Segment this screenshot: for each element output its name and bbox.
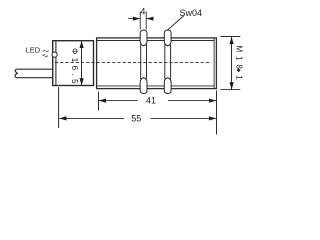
dim 55 extension line left bbox=[58, 87, 60, 128]
dim phi16.5 line bbox=[81, 41, 83, 85]
svg-text:Φ16.5: Φ16.5 bbox=[70, 48, 79, 87]
barrel (threaded body M18) bbox=[97, 38, 217, 89]
LED indicator circle bbox=[52, 52, 57, 57]
LED rays bbox=[42, 50, 48, 57]
svg-text:1: 1 bbox=[234, 75, 243, 80]
dim 4 arrows bbox=[128, 18, 153, 20]
leader line Sw04 bbox=[167, 16, 184, 31]
dim M18*1 ticks bbox=[221, 37, 241, 90]
barrel thread inner lines bbox=[97, 38, 215, 89]
dim 4 extension lines bbox=[140, 12, 146, 30]
housing inner line (cable bushing) bbox=[55, 41, 57, 86]
centerline (dashed axis) bbox=[55, 61, 210, 63]
svg-text:55: 55 bbox=[131, 113, 141, 123]
dim M18*1 line bbox=[231, 37, 233, 89]
nut 1 bbox=[140, 30, 147, 94]
svg-text:4: 4 bbox=[140, 7, 145, 17]
dim 55 line bbox=[59, 117, 216, 119]
nut 2 bbox=[164, 30, 171, 94]
right extension line (shared 41/55) bbox=[216, 91, 218, 135]
svg-text:LED: LED bbox=[26, 45, 41, 54]
svg-text:41: 41 bbox=[146, 96, 156, 106]
dim 41 line bbox=[99, 100, 216, 102]
housing (rear body) bbox=[53, 41, 94, 86]
dim 41 extension line left bbox=[98, 92, 100, 111]
cable bbox=[15, 69, 53, 78]
